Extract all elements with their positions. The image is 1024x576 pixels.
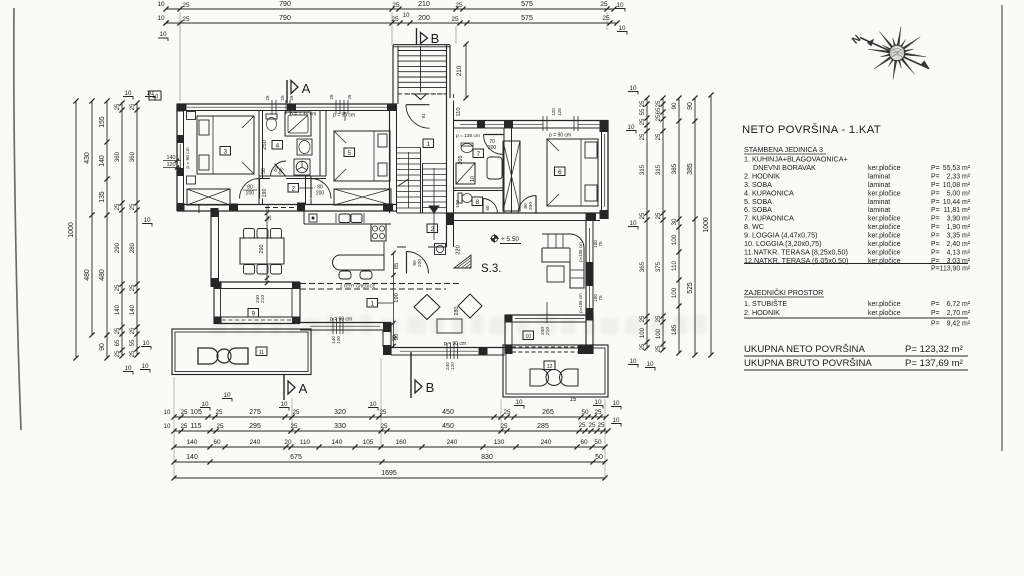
svg-text:4: 4 (276, 142, 280, 149)
svg-text:155: 155 (99, 116, 106, 128)
dashed line at stair base (406, 93, 446, 95)
svg-text:laminat: laminat (868, 173, 890, 180)
svg-text:65: 65 (655, 107, 662, 114)
svg-text:25: 25 (265, 95, 270, 100)
svg-text:315: 315 (655, 164, 662, 175)
svg-text:90: 90 (687, 102, 694, 110)
bottom dimension chain 1 (174, 416, 606, 418)
svg-text:240: 240 (447, 439, 458, 446)
svg-text:10: 10 (629, 358, 637, 365)
svg-text:25: 25 (655, 100, 662, 107)
svg-text:85: 85 (394, 263, 400, 269)
svg-text:25: 25 (597, 422, 605, 429)
svg-text:220: 220 (456, 245, 462, 255)
svg-text:25: 25 (455, 2, 463, 9)
kitchen island (333, 255, 384, 270)
svg-text:290: 290 (259, 245, 265, 254)
bath7/wc8 divider (454, 187, 505, 189)
svg-text:100: 100 (655, 328, 662, 339)
svg-text:790: 790 (279, 1, 291, 8)
svg-text:25: 25 (639, 133, 646, 140)
svg-text:1,90 m²: 1,90 m² (947, 224, 971, 231)
kitchen small appliance (309, 214, 317, 222)
svg-text:90: 90 (392, 335, 398, 341)
svg-text:25: 25 (265, 205, 271, 211)
svg-text:A: A (299, 381, 308, 396)
room 3 door (240, 179, 260, 199)
svg-text:p = 90 cm: p = 90 cm (333, 113, 355, 119)
svg-text:185: 185 (671, 324, 678, 335)
left dimension chains (75, 101, 77, 358)
svg-text:91: 91 (421, 113, 426, 118)
svg-text:20: 20 (284, 439, 292, 446)
svg-text:B: B (426, 380, 435, 395)
section marker A bottom (283, 375, 285, 400)
svg-text:140: 140 (114, 304, 121, 315)
svg-text:10: 10 (152, 94, 158, 100)
svg-text:525: 525 (687, 282, 694, 294)
svg-text:5,00 m²: 5,00 m² (947, 190, 971, 197)
svg-text:3: 3 (224, 148, 228, 155)
boxed 10 at plan top-left (149, 91, 161, 100)
svg-text:9: 9 (252, 310, 256, 317)
svg-text:480: 480 (84, 269, 91, 281)
svg-text:250: 250 (262, 140, 268, 150)
svg-text:25: 25 (600, 1, 608, 8)
svg-text:NETO POVRŠINA - 1.KAT: NETO POVRŠINA - 1.KAT (742, 123, 881, 136)
wall segment west below bedroomblock (198, 205, 200, 214)
svg-text:10: 10 (157, 15, 165, 22)
bath 4 washing machine (294, 159, 310, 175)
wall between corridor and bath7 (453, 128, 455, 213)
svg-text:P=: P= (931, 321, 940, 328)
dashed line above corridor (406, 93, 446, 95)
svg-text:385: 385 (687, 163, 694, 175)
svg-text:140: 140 (187, 439, 198, 446)
svg-text:30: 30 (671, 218, 678, 226)
svg-text:2,33 m²: 2,33 m² (947, 173, 971, 180)
scan page-edge artifact left (14, 8, 21, 430)
washer niche next to entrance (435, 244, 446, 255)
dining dim line (266, 213, 268, 283)
svg-text:190: 190 (262, 189, 268, 198)
svg-text:1: 1 (427, 141, 431, 148)
svg-text:200: 200 (246, 191, 255, 197)
sofa side table (570, 258, 572, 260)
room6 window ticks (542, 116, 544, 131)
svg-text:205: 205 (458, 156, 464, 165)
svg-text:15: 15 (570, 397, 577, 403)
stair door upper (406, 105, 430, 129)
svg-text:25: 25 (292, 409, 300, 416)
svg-text:55: 55 (639, 108, 646, 115)
wall room5/stairwell (389, 104, 391, 213)
svg-text:90: 90 (671, 102, 678, 110)
svg-text:140: 140 (99, 155, 106, 167)
terrace 11 label (256, 347, 267, 356)
svg-text:25: 25 (215, 409, 223, 416)
svg-text:100: 100 (639, 327, 646, 338)
svg-text:25: 25 (639, 212, 646, 219)
svg-text:25: 25 (182, 2, 190, 9)
svg-text:10: 10 (163, 409, 171, 416)
svg-text:p = 135 cm: p = 135 cm (456, 133, 480, 139)
svg-text:575: 575 (521, 15, 533, 22)
svg-text:25: 25 (588, 422, 596, 429)
window tick cluster top wall right (335, 100, 337, 114)
armchair 1 (414, 295, 440, 320)
column blocks top wall (177, 104, 187, 112)
bedroom block bottom wall (177, 204, 397, 206)
svg-text:120: 120 (336, 336, 341, 344)
svg-text:P=: P= (931, 199, 940, 206)
armchair 2 (458, 294, 482, 318)
svg-text:50: 50 (261, 168, 267, 174)
shaft with X (503, 141, 520, 211)
svg-text:120: 120 (167, 162, 176, 168)
svg-text:B: B (431, 31, 440, 46)
faint scan watermark band (212, 314, 706, 335)
hall passage dashed opening (265, 207, 300, 209)
svg-text:2: 2 (292, 185, 296, 192)
bath 4 washbasin (297, 139, 312, 155)
svg-text:200: 200 (488, 145, 497, 151)
svg-text:140: 140 (332, 439, 343, 446)
bottom dimension chain 4 (174, 461, 605, 463)
room 3 bed (197, 116, 254, 174)
interior wall hall/room5 (305, 176, 307, 205)
svg-text:p = 90 cm: p = 90 cm (444, 341, 466, 347)
bottom dimension chain 3 (174, 446, 605, 448)
svg-text:laminat: laminat (868, 207, 890, 214)
svg-text:320: 320 (334, 409, 346, 416)
svg-text:10: 10 (629, 220, 637, 227)
svg-text:1. STUBIŠTE: 1. STUBIŠTE (744, 299, 787, 308)
section marker B top (416, 28, 418, 45)
interior wall room3/bath4 (258, 111, 260, 205)
svg-text:laminat: laminat (868, 199, 890, 206)
bath 7 door (484, 135, 504, 155)
svg-text:25: 25 (114, 284, 121, 291)
svg-text:75: 75 (598, 241, 603, 247)
svg-text:10: 10 (525, 334, 531, 340)
svg-text:25: 25 (639, 343, 646, 350)
svg-text:ZAJEDNIČKI PROSTOR: ZAJEDNIČKI PROSTOR (744, 288, 823, 297)
svg-text:330: 330 (334, 423, 346, 430)
svg-text:25: 25 (655, 133, 662, 140)
svg-text:115: 115 (190, 423, 201, 430)
compass needle line (860, 38, 929, 69)
svg-text:10: 10 (124, 365, 132, 372)
loggia 10 open edge dashed (512, 346, 578, 348)
svg-text:10: 10 (646, 361, 654, 368)
compass center sphere (889, 45, 905, 61)
living east wall (592, 221, 594, 314)
corner sofa (542, 234, 584, 288)
kitchen window ticks (332, 318, 334, 334)
svg-text:25: 25 (216, 423, 224, 430)
svg-text:P= 137,69 m²: P= 137,69 m² (905, 358, 964, 369)
svg-text:450: 450 (442, 423, 454, 430)
level marker +5.50 (491, 235, 498, 242)
bottom dimension chain 2 (174, 430, 608, 432)
wc 8 door (483, 199, 498, 214)
top dimension chain 1 (166, 8, 614, 10)
svg-text:830: 830 (481, 454, 493, 461)
compass north rose (868, 27, 925, 80)
terrace 11 (172, 329, 311, 375)
svg-text:25: 25 (347, 94, 352, 99)
svg-text:+ 5.50: + 5.50 (501, 236, 519, 243)
stairwell label 1 (423, 139, 434, 148)
living room label 1 (367, 299, 378, 308)
svg-text:575: 575 (521, 1, 533, 8)
svg-text:75: 75 (598, 295, 603, 301)
bath 7 fixtures (461, 144, 473, 153)
svg-text:135: 135 (99, 191, 106, 203)
svg-text:25: 25 (267, 215, 273, 221)
svg-text:25: 25 (451, 16, 459, 23)
witness lines bottom (173, 377, 175, 480)
svg-text:ker.pločice: ker.pločice (868, 249, 901, 256)
svg-text:P=: P= (931, 241, 940, 248)
svg-text:1000: 1000 (68, 222, 75, 237)
loggia 10 (505, 314, 593, 316)
svg-text:P=: P= (931, 224, 940, 231)
dims along living west wall (393, 253, 395, 347)
svg-text:25: 25 (114, 203, 121, 210)
svg-text:240: 240 (541, 439, 552, 446)
room 5 label (344, 148, 355, 157)
svg-text:25: 25 (639, 315, 646, 322)
kitchen counter (304, 223, 391, 225)
stair center line with down arrow (420, 46, 422, 92)
svg-text:8: 8 (476, 199, 480, 206)
svg-text:10: 10 (403, 12, 410, 19)
svg-text:10: 10 (515, 399, 523, 406)
svg-text:430: 430 (84, 152, 91, 164)
svg-text:25: 25 (392, 2, 400, 9)
room6 east wall (607, 121, 609, 220)
kitchen stove (371, 224, 386, 241)
svg-text:25: 25 (655, 212, 662, 219)
bath4 bottom wall (259, 175, 326, 177)
bottom dimension chain 5 (174, 477, 605, 479)
living west wall (210, 208, 212, 287)
stairwell label 2 (427, 224, 438, 233)
svg-text:130: 130 (494, 439, 505, 446)
svg-text:190: 190 (394, 293, 400, 303)
svg-text:10: 10 (223, 392, 231, 399)
fert gredice dashed beam (300, 283, 460, 285)
svg-text:200: 200 (418, 15, 430, 22)
terrace 11 loungers (198, 348, 218, 364)
svg-text:210: 210 (456, 65, 463, 76)
bar stools (339, 271, 351, 279)
svg-text:11: 11 (259, 350, 264, 356)
svg-text:240: 240 (250, 439, 261, 446)
bath 4 door (271, 161, 287, 177)
svg-text:265: 265 (542, 409, 554, 416)
svg-text:10,08 m²: 10,08 m² (943, 182, 971, 189)
bedroom block top wall (177, 103, 397, 105)
svg-text:60: 60 (580, 439, 588, 446)
svg-text:P=: P= (931, 207, 940, 214)
svg-text:ker.pločice: ker.pločice (868, 165, 901, 172)
svg-text:210: 210 (545, 327, 551, 335)
svg-text:ker.pločice: ker.pločice (868, 241, 901, 248)
svg-text:3,90 m²: 3,90 m² (947, 216, 971, 223)
svg-text:10: 10 (612, 400, 620, 407)
svg-text:10: 10 (201, 401, 209, 408)
svg-text:UKUPNA BRUTO POVRŠINA: UKUPNA BRUTO POVRŠINA (744, 358, 872, 369)
stairwell east wall (446, 94, 448, 247)
section marker B bottom (410, 352, 412, 398)
svg-text:ker.pločice: ker.pločice (868, 233, 901, 240)
svg-text:25: 25 (129, 327, 136, 334)
svg-text:25: 25 (114, 350, 121, 357)
svg-text:120: 120 (551, 108, 556, 116)
svg-text:2: 2 (431, 226, 435, 233)
svg-text:10: 10 (369, 401, 377, 408)
svg-text:60: 60 (213, 439, 221, 446)
section marker A top (286, 80, 288, 103)
svg-text:1: 1 (371, 300, 375, 307)
svg-text:2,40 m²: 2,40 m² (947, 241, 971, 248)
svg-text:220: 220 (417, 259, 423, 267)
svg-text:200: 200 (528, 202, 534, 210)
svg-text:50: 50 (581, 409, 589, 416)
svg-text:3,35 m²: 3,35 m² (947, 233, 971, 240)
room 6 bed (547, 139, 598, 206)
svg-text:100: 100 (671, 234, 678, 245)
svg-text:25: 25 (379, 409, 387, 416)
svg-text:11,81 m²: 11,81 m² (943, 207, 970, 214)
svg-text:790: 790 (279, 15, 291, 22)
svg-text:25: 25 (114, 327, 121, 334)
svg-text:10: 10 (142, 340, 150, 347)
svg-text:25: 25 (503, 409, 511, 416)
bath 7 label (473, 149, 484, 158)
svg-text:280: 280 (129, 242, 136, 253)
wc 8 label (472, 197, 483, 206)
svg-text:6: 6 (558, 169, 562, 176)
svg-text:25: 25 (391, 16, 399, 23)
bath 4 shower (285, 112, 311, 136)
svg-text:55,53 m²: 55,53 m² (943, 165, 971, 172)
svg-text:60: 60 (485, 205, 490, 210)
stair treads upper flight (398, 50, 447, 52)
svg-text:675: 675 (290, 454, 302, 461)
svg-text:10: 10 (280, 401, 288, 408)
loggia 10 label (523, 331, 534, 340)
svg-text:200: 200 (316, 191, 325, 197)
svg-text:10: 10 (627, 124, 635, 131)
svg-text:laminat: laminat (868, 182, 890, 189)
room 3 nightstands (187, 112, 196, 120)
svg-text:P=: P= (931, 182, 940, 189)
svg-text:140: 140 (186, 454, 198, 461)
stair block exterior walls (392, 45, 394, 104)
svg-text:105: 105 (363, 439, 374, 446)
bath 4 toilet (266, 114, 277, 119)
svg-text:10,44 m²: 10,44 m² (943, 199, 971, 206)
svg-text:ker.pločice: ker.pločice (868, 310, 901, 317)
svg-text:25: 25 (655, 114, 662, 121)
loggia 9 label (248, 309, 259, 318)
svg-text:10: 10 (616, 2, 624, 9)
svg-text:280: 280 (454, 307, 460, 316)
bath 4 label (272, 141, 283, 150)
svg-text:P=: P= (931, 249, 940, 256)
svg-text:2. HODNIK: 2. HODNIK (744, 308, 780, 317)
svg-text:100: 100 (455, 200, 461, 208)
window tick cluster top wall left (271, 100, 273, 114)
svg-text:10: 10 (612, 417, 620, 424)
svg-text:110: 110 (456, 107, 462, 116)
svg-text:P=: P= (931, 165, 940, 172)
svg-text:p = 90 cm: p = 90 cm (185, 147, 191, 168)
entrance door lower (407, 252, 429, 274)
svg-text:360: 360 (114, 151, 121, 162)
svg-text:10: 10 (157, 1, 165, 8)
svg-text:10: 10 (124, 90, 132, 97)
svg-text:385: 385 (671, 163, 678, 174)
svg-text:10: 10 (143, 217, 151, 224)
svg-text:295: 295 (249, 423, 261, 430)
scan frame line right (1001, 5, 1003, 451)
svg-text:140: 140 (129, 304, 136, 315)
svg-text:ker.pločice: ker.pločice (868, 301, 901, 308)
svg-text:25: 25 (380, 423, 388, 430)
svg-text:110: 110 (300, 439, 311, 446)
shaft walls (503, 128, 505, 213)
svg-text:25: 25 (180, 423, 188, 430)
dining table (240, 238, 284, 264)
terrace 12 chairs and table (530, 369, 549, 386)
svg-text:210: 210 (418, 1, 430, 8)
stair headroom dashed cut line (398, 93, 447, 95)
svg-text:25: 25 (180, 409, 188, 416)
svg-text:105: 105 (190, 409, 202, 416)
dim 210 beside stair (465, 44, 467, 98)
loggia 9 (214, 281, 300, 283)
svg-text:p=105 cm: p=105 cm (578, 293, 583, 313)
svg-text:P=: P= (931, 216, 940, 223)
svg-text:10: 10 (629, 85, 637, 92)
svg-text:50: 50 (594, 439, 602, 446)
svg-text:2 FERT GREDICE: 2 FERT GREDICE (340, 284, 376, 289)
svg-text:25: 25 (602, 15, 610, 22)
svg-text:25: 25 (289, 95, 294, 100)
witness lines top (179, 12, 181, 101)
room 3 label (220, 147, 231, 156)
svg-text:P=: P= (931, 190, 940, 197)
stair direction lines (408, 152, 410, 208)
svg-text:25: 25 (500, 423, 508, 430)
bath block top wall (454, 120, 609, 122)
svg-text:120: 120 (450, 362, 455, 370)
room 5 wardrobe (334, 189, 391, 205)
glazing line top wall (187, 106, 287, 108)
bedroom block left wall (176, 104, 178, 211)
landing line (397, 212, 447, 214)
svg-text:25: 25 (129, 203, 136, 210)
svg-text:210: 210 (260, 295, 266, 303)
svg-text:P=113,90 m²: P=113,90 m² (931, 266, 971, 273)
svg-text:25: 25 (578, 422, 586, 429)
living top wall right part (447, 212, 609, 214)
